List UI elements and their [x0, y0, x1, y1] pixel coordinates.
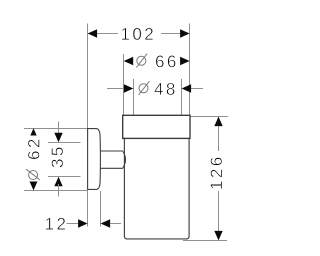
dim35 top extension line [48, 142, 81, 144]
dim 12 line left tail [67, 223, 80, 225]
dia48 right extension line [181, 79, 183, 116]
dim 66 left arrow [124, 57, 134, 65]
dim 102 right arrow [180, 29, 190, 37]
dim 12 text [45, 215, 69, 234]
front extension line (right) [189, 24, 191, 116]
dim 12 right tail [110, 223, 121, 225]
dim126 top extension line [191, 116, 229, 118]
dim 35 bottom arrow (pointing up) [54, 177, 62, 187]
dim 62 top arrow [29, 128, 37, 138]
holder rim (ring) [123, 115, 190, 138]
svg-text:35: 35 [48, 144, 67, 168]
dia48 left extension line [133, 79, 135, 116]
dim 66 right arrow [180, 57, 190, 65]
svg-text:126: 126 [207, 154, 226, 190]
dim 126 vertical line lower [218, 191, 220, 239]
tumbler body (glass cup) [124, 138, 189, 239]
dim 48 text [154, 80, 178, 99]
svg-text:48: 48 [154, 80, 178, 99]
dim 62 bottom arrow [29, 181, 37, 191]
dia symbol 66 [136, 54, 147, 68]
wall extension line (back, lower) [87, 191, 89, 227]
dim 35 vertical line lower [58, 184, 60, 197]
dim 102 line right segment [161, 33, 181, 35]
svg-text:66: 66 [155, 52, 179, 71]
dim 126 bottom arrow [214, 231, 222, 241]
dim 126 top arrow [214, 117, 222, 127]
svg-text:62: 62 [24, 136, 43, 160]
wall plate outline [88, 129, 101, 190]
plate front extension line (lower) [100, 191, 102, 227]
dim 102 text [120, 25, 156, 44]
dim 12 right arrow [101, 219, 111, 227]
dim 102 left arrow [88, 29, 98, 37]
dia symbol 48 [139, 81, 150, 95]
svg-text:102: 102 [120, 25, 156, 44]
dim 35 text [48, 144, 67, 168]
dim 35 vertical line upper [58, 122, 60, 136]
dim 102 line left segment [97, 33, 119, 35]
dim126 bottom extension line [183, 240, 227, 242]
dim 48 left tail [107, 88, 125, 90]
dim 66 text [155, 52, 179, 71]
dim 35 top arrow (pointing down) [54, 133, 62, 143]
dim35 bottom extension line [48, 176, 81, 178]
dim 126 text [207, 154, 226, 190]
dim 48 left arrow [124, 84, 133, 92]
dia66 left extension line [123, 54, 125, 116]
wall extension line (back, upper) [87, 24, 89, 129]
dia62 top extension line [24, 128, 87, 130]
dim 126 vertical line upper [218, 117, 220, 151]
svg-text:12: 12 [45, 215, 69, 234]
dim 12 left arrow [78, 219, 88, 227]
stem (wall arm) [100, 151, 125, 168]
dim 48 right tail [191, 88, 204, 90]
dia62 bottom extension line [24, 190, 88, 192]
dim 62 text [24, 136, 43, 182]
dim 48 right arrow [182, 84, 192, 92]
dim 62 vertical line [33, 135, 35, 184]
